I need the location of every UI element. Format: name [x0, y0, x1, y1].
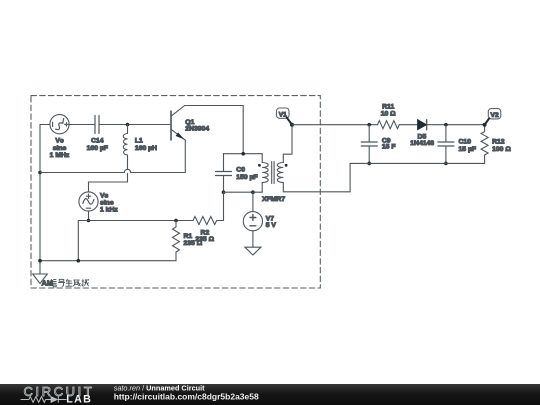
node: junction at L1 top: [126, 123, 130, 127]
svg-text:235 Ω: 235 Ω: [184, 240, 203, 247]
wire: collector rail to the right and down: [185, 106, 244, 154]
svg-text:15 µF: 15 µF: [459, 146, 477, 153]
node: junction dot left rail: [38, 171, 42, 175]
wire: output bottom rail: [350, 162, 485, 164]
node: junction bottom-left: [38, 259, 42, 263]
wire: secondary bottom lead to output ground rail: [283, 163, 350, 191]
svg-text:XFMR7: XFMR7: [262, 196, 285, 203]
wire: D5 to V2 node: [427, 124, 485, 126]
svg-text:100 Ω: 100 Ω: [492, 146, 511, 153]
svg-text:160 µF: 160 µF: [87, 145, 108, 152]
transformer phase dot secondary: [285, 164, 288, 167]
ground (V7): [245, 247, 261, 255]
transformer core: [272, 162, 274, 184]
node: junction C10 bottom: [444, 162, 448, 166]
resistor R2 235 ohm (horizontal): [193, 217, 217, 225]
svg-text:C14: C14: [91, 138, 104, 145]
transistor Q1 2N3904: [170, 111, 172, 140]
wire: Vc left lead: [40, 124, 50, 126]
wire: L1 bottom down, over rail, to Vs top: [89, 155, 128, 192]
node: junction C9 bottom: [367, 162, 371, 166]
wire: left vertical from Vc down to ground: [39, 125, 41, 275]
node: junction collector/C0/XFMR: [241, 152, 245, 156]
svg-text:150 µF: 150 µF: [236, 174, 257, 181]
voltage source Vs (sine 1 kHz): [79, 192, 98, 211]
inductor L1 160 uH: [127, 125, 129, 134]
svg-text:Vs: Vs: [100, 192, 109, 199]
svg-text:V2: V2: [491, 112, 499, 119]
node: junction C0 bottom: [222, 190, 226, 194]
wire: bottom rail: [40, 260, 176, 262]
resistor R12 100 ohm (vertical): [484, 125, 486, 132]
wire: primary loop bottom rail: [224, 191, 263, 193]
capacitor C10 15 uF: [445, 125, 447, 142]
node flag V2: [488, 109, 501, 119]
node flag V1: [277, 108, 290, 118]
svg-text:C0: C0: [236, 166, 245, 173]
wire: Vs bottom lead: [88, 211, 90, 220]
wire: middle rail Vs to R1/R2: [78, 220, 193, 222]
svg-text:LAB: LAB: [66, 393, 92, 405]
svg-text:Vc: Vc: [55, 138, 64, 145]
wire: left drop to bottom rail: [77, 221, 79, 261]
svg-text:R11: R11: [382, 103, 394, 110]
svg-text:C10: C10: [459, 139, 472, 146]
wire: C14 to Q1 base: [99, 124, 171, 126]
transformer XFMR7 secondary winding: [277, 163, 283, 183]
svg-text:1 MHz: 1 MHz: [50, 152, 70, 159]
node: junction C9 top: [367, 123, 371, 127]
node: junction Vs bottom: [87, 219, 91, 223]
svg-text:R12: R12: [492, 139, 505, 146]
resistor R1 235 ohm (vertical): [175, 221, 177, 228]
transformer phase dot primary: [258, 164, 261, 167]
capacitor C14 160 uF: [95, 116, 99, 134]
dashed subcircuit box (AM signal generator): [31, 96, 320, 288]
wire: Vc to C14: [69, 124, 95, 126]
svg-text:sine: sine: [100, 200, 114, 207]
svg-text:15 F: 15 F: [382, 144, 396, 151]
svg-text:10 Ω: 10 Ω: [381, 111, 396, 118]
wire: V1 node to R11: [292, 124, 378, 126]
node: junction Vs return: [77, 259, 81, 263]
svg-text:L1: L1: [135, 138, 143, 145]
wire: secondary top lead up to node V1: [283, 125, 292, 163]
svg-text:http://circuitlab.com/c8dgr5b2: http://circuitlab.com/c8dgr5b2a3e58: [114, 391, 259, 401]
wire: emitter rail with hop over L1 wire: [40, 169, 185, 172]
wire: V7 to ground: [252, 231, 254, 247]
capacitor C0 150 uF: [223, 154, 225, 172]
capacitor C9 15 F: [368, 125, 370, 142]
logo wire with resistor and diode: [21, 396, 67, 403]
svg-text:sine: sine: [53, 145, 67, 152]
caption CJK glyphs (drawn strokes): [51, 279, 89, 287]
ground (left, bottom of box): [33, 274, 48, 284]
svg-text:2N3904: 2N3904: [185, 126, 209, 133]
node: junction C10 top: [444, 123, 448, 127]
svg-text:1 kHz: 1 kHz: [100, 207, 118, 214]
voltage source V7 5 V: [252, 192, 254, 211]
transformer XFMR7 primary winding: [261, 154, 263, 163]
node: junction R1 top: [174, 219, 178, 223]
svg-text:160 µH: 160 µH: [135, 145, 157, 152]
svg-text:5 V: 5 V: [266, 222, 277, 229]
wire: R11 to D5: [399, 124, 417, 126]
resistor R11 10 ohm (horizontal): [378, 121, 400, 129]
wire: C0 bottom down to R2: [223, 192, 225, 220]
svg-text:1N4148: 1N4148: [410, 140, 434, 147]
wire: primary loop top rail: [224, 153, 263, 155]
diode D5 1N4148: [418, 120, 427, 130]
node: junction V7 top: [251, 190, 255, 194]
wire: emitter down to rail: [184, 140, 186, 172]
voltage source Vc (sine 1 MHz): [50, 115, 69, 134]
